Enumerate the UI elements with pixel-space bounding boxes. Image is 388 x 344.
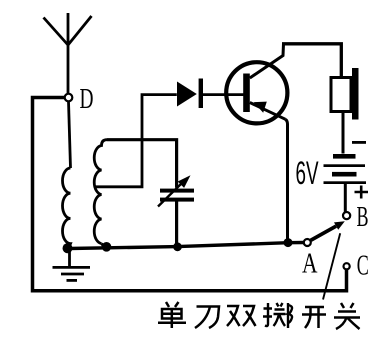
junction dot: L1 bottom bbox=[63, 243, 73, 253]
wire: collector top rail to earphone bbox=[282, 44, 341, 78]
wire: D left, down left side, along bottom, up to switch throw C bbox=[33, 98, 347, 291]
wire: capacitor down to rail bbox=[175, 202, 178, 248]
junction dot: L2 bottom bbox=[102, 242, 112, 252]
earphone coil body bbox=[331, 78, 351, 112]
wire: L2 bottom stub bbox=[102, 244, 105, 248]
caption char 开 bbox=[302, 307, 326, 328]
switch throw contact C bbox=[344, 263, 350, 269]
wire: emitter down to switch rail bbox=[286, 119, 288, 242]
inductor L1 (antenna coil) bbox=[63, 168, 71, 246]
leader line to switch bbox=[323, 233, 340, 299]
caption char 掷 bbox=[263, 303, 292, 328]
wire: L2 tap to diode bbox=[95, 95, 177, 187]
junction dot: emitter rail bbox=[284, 238, 293, 247]
variable capacitor arrow bbox=[158, 181, 184, 207]
svg-text:D: D bbox=[80, 84, 94, 115]
caption char 刀 bbox=[195, 307, 219, 329]
junction dot: capacitor bottom bbox=[173, 242, 182, 251]
variable capacitor C1 plates bbox=[160, 189, 194, 193]
wire: D down to coil L1 bbox=[69, 101, 71, 168]
transistor base bar bbox=[243, 74, 250, 113]
ground bbox=[53, 246, 91, 280]
switch pole contact A bbox=[304, 239, 311, 246]
transistor emitter arrow (PNP) bbox=[254, 102, 267, 113]
battery plus sign bbox=[355, 186, 369, 199]
wire: tank bottom rail bbox=[70, 243, 304, 249]
transistor collector bbox=[250, 44, 284, 78]
caption char 双 bbox=[227, 306, 256, 326]
svg-text:A: A bbox=[302, 249, 318, 280]
transistor emitter bbox=[250, 103, 286, 120]
diode V1 bbox=[177, 82, 197, 107]
svg-text:B: B bbox=[357, 202, 369, 233]
battery minus sign bbox=[352, 141, 366, 144]
wire: battery to switch throw B bbox=[344, 184, 347, 212]
earphone diaphragm bar bbox=[352, 68, 359, 120]
svg-text:C: C bbox=[357, 251, 369, 282]
switch throw contact B bbox=[343, 212, 350, 219]
inductor L2 (tuning coil) bbox=[94, 140, 107, 244]
wire: diode to base bbox=[203, 93, 226, 96]
wire: L2 top to capacitor bbox=[107, 140, 177, 188]
transistor Q1 circle bbox=[226, 62, 287, 123]
transistor base lead bbox=[225, 93, 244, 96]
caption char 关 bbox=[334, 303, 360, 329]
wire: earphone to battery bbox=[342, 112, 345, 154]
node D circle bbox=[65, 94, 73, 102]
antenna bbox=[44, 13, 92, 94]
svg-text:6V: 6V bbox=[296, 155, 319, 191]
caption char 单 bbox=[158, 302, 186, 328]
battery GB plates bbox=[333, 154, 356, 159]
switch lever bbox=[311, 226, 336, 240]
